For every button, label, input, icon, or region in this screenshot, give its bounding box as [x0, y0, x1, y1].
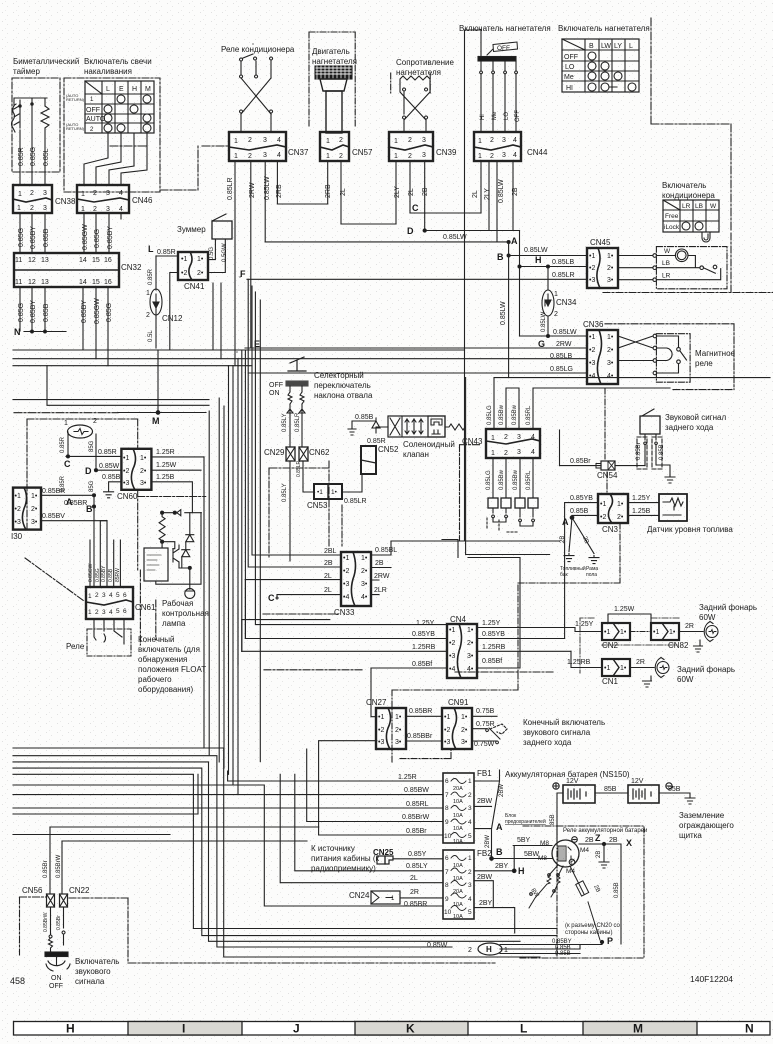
connector CN2: [602, 623, 630, 640]
svg-text:0.75W: 0.75W: [474, 741, 495, 748]
svg-text:CN44: CN44: [527, 148, 548, 157]
fuse box label: [505, 813, 546, 825]
svg-text:•4: •4: [449, 666, 455, 673]
svg-text:L: L: [106, 86, 110, 93]
svg-text:3: 3: [263, 137, 267, 144]
blower resistor: [400, 76, 430, 132]
svg-text:B: B: [496, 847, 503, 857]
svg-text:6: 6: [123, 592, 127, 599]
svg-text:наклона отвала: наклона отвала: [314, 391, 373, 400]
wire 1.25RB into CN1: [567, 659, 591, 666]
svg-text:1: 1: [81, 206, 85, 213]
svg-text:Двигатель: Двигатель: [312, 47, 350, 56]
glow plug switch table: [66, 81, 154, 133]
svg-text:Биметаллический: Биметаллический: [13, 57, 79, 66]
svg-text:0.85YB: 0.85YB: [412, 631, 435, 638]
svg-text:2B: 2B: [375, 560, 384, 567]
bimetallic timer element: [12, 98, 50, 172]
svg-text:3•: 3•: [461, 739, 468, 746]
svg-text:нагнетателя: нагнетателя: [312, 57, 357, 66]
CN33 right wires: [371, 445, 391, 555]
svg-text:P: P: [607, 936, 613, 946]
blower switch table: [562, 39, 639, 92]
svg-text:•3: •3: [343, 581, 349, 588]
transistor: [173, 545, 179, 568]
svg-text:Конечный включатель: Конечный включатель: [523, 718, 605, 727]
svg-text:•1: •1: [378, 714, 384, 721]
fuse box FB2: [443, 850, 474, 920]
magnetic relay circuit: [618, 334, 687, 375]
connector CN34: [542, 290, 558, 318]
svg-text:0.85GW: 0.85GW: [94, 298, 101, 324]
svg-text:LB: LB: [695, 203, 703, 210]
svg-text:контрольная: контрольная: [162, 609, 209, 618]
svg-text:0.85LW: 0.85LW: [443, 234, 467, 241]
svg-text:Звуковой сигнал: Звуковой сигнал: [665, 413, 727, 422]
svg-text:CN24: CN24: [349, 891, 370, 900]
svg-text:•3: •3: [444, 739, 450, 746]
connector CN24: [349, 891, 370, 900]
svg-text:11: 11: [15, 257, 22, 264]
svg-text:1•: 1•: [620, 629, 627, 636]
svg-text:3: 3: [106, 206, 110, 213]
svg-text:•4: •4: [343, 594, 349, 601]
svg-text:•1: •1: [15, 493, 21, 500]
svg-text:0.85BY: 0.85BY: [81, 300, 88, 323]
svg-text:0.85BY: 0.85BY: [30, 300, 37, 323]
svg-text:•4: •4: [589, 373, 595, 380]
svg-text:0.85RL: 0.85RL: [526, 405, 532, 425]
CN4 right wires: [468, 558, 575, 669]
svg-text:3•: 3•: [361, 581, 368, 588]
svg-text:4: 4: [109, 609, 113, 616]
transistor circuit top wire: [162, 510, 201, 516]
svg-text:CN56: CN56: [22, 886, 43, 895]
connector CN61: [86, 587, 133, 619]
reverse-horn-end-switch label: [523, 718, 605, 747]
svg-text:4: 4: [109, 592, 113, 599]
svg-text:3: 3: [517, 434, 521, 441]
svg-text:2RB: 2RB: [325, 184, 332, 198]
connector CN29: [286, 447, 295, 461]
selector switch label: [314, 371, 373, 400]
glow plug switch dashed enclosure: [64, 78, 160, 192]
connector CN41: [178, 252, 208, 280]
svg-text:сигнала: сигнала: [75, 977, 105, 986]
svg-text:0.85R: 0.85R: [367, 438, 386, 445]
svg-text:60W: 60W: [677, 675, 694, 684]
svg-text:13: 13: [41, 257, 49, 264]
svg-text:8: 8: [445, 882, 449, 889]
svg-text:0.85G: 0.85G: [18, 303, 25, 322]
svg-text:1.25RB: 1.25RB: [412, 644, 436, 651]
F line 0.85LR to CN45 pin3: [240, 269, 575, 279]
svg-text:0.85YB: 0.85YB: [570, 495, 593, 502]
svg-text:•1: •1: [653, 629, 659, 636]
svg-text:0.85BR: 0.85BR: [404, 901, 427, 908]
svg-text:2•: 2•: [361, 568, 368, 575]
svg-text:A: A: [562, 517, 569, 527]
svg-text:•1: •1: [449, 627, 455, 634]
battery 1: [553, 778, 595, 803]
svg-text:заднего хода: заднего хода: [523, 738, 572, 747]
rear lamp 2: [630, 667, 654, 669]
svg-text:0.85GW: 0.85GW: [88, 563, 94, 582]
svg-text:CN27: CN27: [366, 698, 387, 707]
svg-text:1•: 1•: [617, 501, 624, 508]
svg-text:4: 4: [513, 152, 517, 159]
svg-text:2RW: 2RW: [556, 341, 572, 348]
svg-text:•2: •2: [589, 347, 595, 354]
svg-text:20A: 20A: [453, 786, 463, 792]
svg-text:1: 1: [468, 855, 472, 862]
svg-text:4: 4: [513, 137, 517, 144]
wires CN38 to CN32: [20, 213, 45, 253]
wire labels 0.85R 0.85G 0.85L: [18, 147, 50, 166]
svg-text:2: 2: [468, 869, 472, 876]
battery label: [505, 770, 630, 779]
svg-text:14: 14: [79, 257, 87, 264]
svg-text:•1: •1: [589, 253, 595, 260]
svg-text:1•: 1•: [31, 493, 38, 500]
svg-text:0.85R: 0.85R: [18, 147, 25, 166]
svg-text:1: 1: [468, 778, 472, 785]
svg-text:3: 3: [263, 152, 267, 159]
wire B to CN45 pin1: [509, 255, 587, 257]
ground from Z: [599, 844, 609, 868]
wire 2RB CN37-4 to CN57-1: [277, 203, 327, 205]
svg-text:реле: реле: [695, 359, 713, 368]
svg-text:2B: 2B: [422, 187, 429, 196]
svg-text:2: 2: [93, 190, 97, 197]
connector CN52: [361, 446, 376, 474]
svg-text:2RW: 2RW: [374, 573, 390, 580]
svg-text:Зуммер: Зуммер: [177, 225, 206, 234]
svg-text:W: W: [664, 248, 671, 255]
node A wire from I30 pin1: [41, 494, 94, 496]
svg-text:3: 3: [468, 805, 472, 812]
node D and 0.85LW line: [407, 226, 467, 241]
svg-text:Free: Free: [665, 213, 679, 220]
svg-text:0.85LW: 0.85LW: [553, 329, 577, 336]
node L and 0.85R wire: [148, 244, 176, 256]
svg-text:1.25Y: 1.25Y: [632, 495, 651, 502]
bimetallic timer label: [13, 57, 79, 76]
relay top wire Z X: [579, 844, 621, 944]
svg-text:0.85LB: 0.85LB: [552, 259, 575, 266]
svg-text:0.85BR: 0.85BR: [409, 708, 432, 715]
svg-text:2: 2: [248, 137, 252, 144]
svg-text:FB2: FB2: [477, 849, 492, 858]
wire L down through CN12: [155, 256, 157, 290]
svg-text:0.5L: 0.5L: [148, 330, 154, 342]
connector CN45: [587, 248, 618, 288]
svg-text:•1: •1: [600, 501, 606, 508]
svg-text:0.85Br: 0.85Br: [570, 458, 591, 465]
svg-text:I30: I30: [11, 532, 23, 541]
panel ground label: [679, 811, 734, 840]
svg-text:1: 1: [17, 205, 21, 212]
svg-text:0.85Bw: 0.85Bw: [499, 469, 505, 490]
svg-text:0.85RL: 0.85RL: [406, 801, 429, 808]
svg-text:X: X: [626, 838, 632, 848]
svg-text:клапан: клапан: [403, 450, 429, 459]
svg-text:2: 2: [468, 792, 472, 799]
bottom dash-dot: [128, 962, 495, 964]
svg-text:1.25Y: 1.25Y: [482, 620, 501, 627]
svg-text:Топливный: Топливный: [560, 565, 586, 572]
svg-text:0.85LY: 0.85LY: [406, 863, 428, 870]
svg-text:0.85BY: 0.85BY: [107, 226, 114, 249]
svg-text:0.85G: 0.85G: [30, 147, 37, 166]
svg-text:2: 2: [468, 947, 472, 954]
svg-text:0.85Bf: 0.85Bf: [482, 658, 502, 665]
svg-text:3: 3: [502, 152, 506, 159]
ground for solenoid: [348, 421, 376, 435]
svg-text:•2: •2: [378, 727, 384, 734]
svg-text:2L: 2L: [324, 573, 332, 580]
svg-text:К источнику: К источнику: [311, 844, 355, 853]
svg-text:OFF: OFF: [564, 54, 578, 61]
svg-text:CN91: CN91: [448, 698, 469, 707]
bottom wire and lamp: [156, 513, 201, 590]
svg-text:0.85LY: 0.85LY: [282, 483, 288, 502]
svg-text:2•: 2•: [395, 727, 402, 734]
node C wire to CN60 pin1: [66, 455, 121, 457]
battery relay: [552, 837, 579, 867]
svg-text:OFF: OFF: [497, 45, 510, 52]
svg-text:CN39: CN39: [436, 148, 457, 157]
svg-text:•3: •3: [15, 519, 21, 526]
connector CN60: [121, 449, 151, 490]
svg-text:2•: 2•: [617, 514, 624, 521]
blower switch: [478, 42, 521, 132]
svg-text:C: C: [64, 459, 71, 469]
CN4 label: [450, 615, 467, 624]
svg-text:1.25Y: 1.25Y: [416, 620, 435, 627]
connector CN44: [474, 132, 521, 161]
svg-text:5: 5: [116, 592, 120, 599]
svg-text:D: D: [407, 226, 414, 236]
svg-text:E: E: [119, 86, 124, 93]
svg-text:2: 2: [504, 450, 508, 457]
wire 0.85Br to CN54: [560, 465, 646, 467]
connector CN12: [146, 289, 162, 319]
svg-text:Реле кондиционера: Реле кондиционера: [221, 45, 295, 54]
svg-text:•3: •3: [123, 480, 129, 487]
relay feed wires 5BY 5BW: [62, 841, 552, 871]
svg-text:CN46: CN46: [132, 196, 153, 205]
svg-text:•1: •1: [317, 489, 323, 496]
svg-text:CN12: CN12: [162, 314, 183, 323]
svg-text:4: 4: [468, 819, 472, 826]
bus line y365: [13, 365, 252, 367]
svg-text:•2: •2: [444, 727, 450, 734]
svg-text:6: 6: [445, 778, 449, 785]
svg-text:H: H: [132, 86, 137, 93]
svg-text:CN1: CN1: [602, 677, 619, 686]
wire 0.85YB up to CN3: [565, 503, 598, 639]
svg-text:•3: •3: [449, 653, 455, 660]
svg-text:2•: 2•: [461, 727, 468, 734]
svg-text:1•: 1•: [669, 629, 676, 636]
buzzer feed verticals: [213, 283, 221, 359]
dash-dot link CN38 area to CN37: [110, 145, 229, 147]
svg-text:2R: 2R: [685, 623, 694, 630]
connector CN22: [60, 894, 68, 907]
svg-text:85G: 85G: [89, 440, 95, 452]
blower motor label: [312, 47, 357, 66]
CN34 wires: [547, 267, 549, 336]
E-vertical bottom corner to right: [465, 540, 560, 542]
svg-text:радиоприемнику): радиоприемнику): [311, 864, 376, 873]
svg-text:3•: 3•: [140, 480, 147, 487]
svg-text:2: 2: [408, 153, 412, 160]
connector CN39: [389, 132, 433, 161]
svg-text:12: 12: [28, 279, 36, 286]
svg-text:B: B: [589, 43, 594, 50]
svg-text:предохранителей: предохранителей: [505, 818, 546, 825]
fuel gauge: [628, 503, 659, 516]
svg-text:2LY: 2LY: [484, 188, 491, 200]
svg-text:Включатель нагнетателя: Включатель нагнетателя: [558, 24, 650, 33]
svg-text:щитка: щитка: [679, 831, 702, 840]
svg-text:•1: •1: [604, 629, 610, 636]
svg-text:кондиционера: кондиционера: [662, 191, 715, 200]
svg-text:3: 3: [43, 205, 47, 212]
selector switch: [269, 357, 308, 447]
svg-text:7: 7: [445, 792, 449, 799]
svg-text:3: 3: [43, 190, 47, 197]
svg-text:9: 9: [445, 896, 449, 903]
AC switch label: [662, 181, 715, 200]
svg-text:0.85Bw: 0.85Bw: [512, 404, 518, 425]
svg-text:60W: 60W: [699, 613, 716, 622]
P node: [607, 936, 613, 946]
svg-text:CN41: CN41: [184, 282, 205, 291]
svg-text:10A: 10A: [453, 863, 463, 869]
wires below CN32: [20, 287, 108, 366]
svg-text:CN36: CN36: [583, 320, 604, 329]
long vertical x464.5: [465, 30, 482, 541]
svg-text:LR: LR: [662, 273, 671, 280]
svg-text:0.85LR: 0.85LR: [227, 177, 234, 200]
bottom scale bar: [14, 1022, 771, 1036]
connector CN27: [376, 708, 406, 749]
svg-text:B: B: [497, 252, 504, 262]
node B: [497, 252, 504, 262]
dash-dot below CN27/CN91: [392, 583, 570, 764]
svg-text:4: 4: [119, 190, 123, 197]
node D wire to CN60 pin2: [96, 469, 121, 471]
svg-text:10A: 10A: [453, 839, 463, 845]
svg-text:2: 2: [93, 206, 97, 213]
svg-text:LY: LY: [614, 43, 622, 50]
svg-text:2BY: 2BY: [479, 900, 493, 907]
svg-text:A: A: [511, 236, 518, 246]
wires down to CN61: [90, 507, 120, 588]
glow plugs below CN43: [487, 498, 538, 532]
svg-text:15: 15: [92, 279, 100, 286]
svg-text:2R: 2R: [636, 659, 645, 666]
svg-text:4: 4: [277, 137, 281, 144]
svg-text:1: 1: [491, 450, 495, 457]
svg-text:ограждающего: ограждающего: [679, 821, 734, 830]
0.85B label and diode to solenoid: [355, 414, 374, 421]
svg-text:пола: пола: [586, 572, 597, 578]
svg-text:2B: 2B: [512, 187, 519, 196]
wire 0.85LG into CN36 pin4: [550, 366, 573, 373]
wire 2L bus CN57-2 CN39-2 CN44-1: [341, 223, 396, 225]
svg-text:Me: Me: [492, 111, 498, 120]
bus line y372: [248, 372, 587, 374]
svg-text:1: 1: [81, 191, 85, 198]
svg-text:0.85BW: 0.85BW: [404, 787, 429, 794]
svg-text:1•: 1•: [467, 627, 474, 634]
svg-text:2: 2: [339, 153, 343, 160]
blower resistor label: [396, 58, 454, 77]
svg-text:1•: 1•: [607, 253, 614, 260]
bus line y398: [13, 399, 209, 401]
svg-text:5BW: 5BW: [524, 851, 540, 858]
svg-text:8: 8: [445, 805, 449, 812]
svg-text:CN37: CN37: [288, 148, 309, 157]
AC switch table: [663, 200, 719, 232]
bus line y358: [13, 358, 587, 360]
svg-text:•1: •1: [444, 714, 450, 721]
connector CN4: [447, 624, 477, 678]
dash-dot mid separators: [263, 613, 338, 615]
svg-text:1: 1: [491, 435, 495, 442]
svg-text:3: 3: [106, 190, 110, 197]
svg-text:2B: 2B: [585, 837, 594, 844]
svg-text:5BY: 5BY: [517, 837, 531, 844]
M node vertical: [157, 350, 159, 413]
svg-text:•2: •2: [589, 265, 595, 272]
blower motor: [315, 66, 352, 133]
svg-text:CN33: CN33: [334, 608, 355, 617]
wire 1.25RB to CN1: [571, 651, 602, 667]
svg-text:•2: •2: [181, 270, 187, 277]
svg-text:0.85BL: 0.85BL: [375, 547, 397, 554]
horn switch: [45, 952, 70, 971]
work lamp: [64, 418, 97, 438]
connector CN43: [486, 429, 540, 458]
svg-text:Магнитное: Магнитное: [695, 349, 736, 358]
svg-text:RETURN): RETURN): [66, 97, 85, 102]
svg-text:85B: 85B: [668, 786, 681, 793]
wires above CN43: [494, 378, 770, 429]
svg-text:заднего хода: заднего хода: [665, 423, 714, 432]
svg-text:0.85B: 0.85B: [102, 474, 121, 481]
svg-text:2L: 2L: [408, 188, 415, 196]
svg-text:0.85R: 0.85R: [157, 249, 176, 256]
svg-text:переключатель: переключатель: [314, 381, 371, 390]
svg-text:•1: •1: [589, 334, 595, 341]
svg-text:2•: 2•: [467, 640, 474, 647]
glow plug switch label: [84, 57, 152, 76]
CN53 wires: [303, 474, 362, 492]
bus line y406: [47, 366, 209, 406]
svg-text:N: N: [745, 1022, 754, 1036]
cab connector note: [565, 923, 621, 936]
svg-text:Рабочая: Рабочая: [162, 599, 193, 608]
svg-text:включатель (для: включатель (для: [138, 645, 200, 654]
buzzer: [212, 214, 232, 239]
svg-text:•2: •2: [449, 640, 455, 647]
svg-text:0.85LR: 0.85LR: [552, 272, 575, 279]
svg-text:2: 2: [339, 137, 343, 144]
